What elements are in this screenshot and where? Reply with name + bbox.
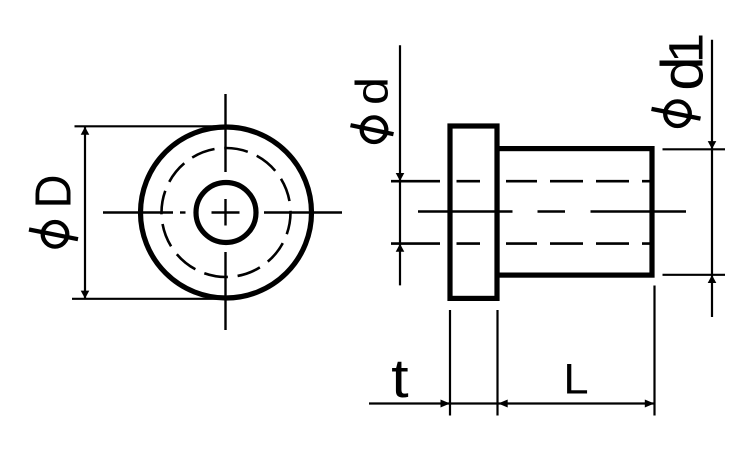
label phiD: phi symbol	[29, 222, 78, 247]
bottom dimensions: extension line at body right	[653, 286, 655, 416]
dimension t: arrow right	[441, 400, 451, 408]
dimension phid1: extension line bottom	[663, 274, 726, 276]
svg-text:D: D	[25, 175, 82, 209]
dimension phid1: arrow down to top ext line	[708, 141, 717, 149]
bottom dimensions: extension line at flange right	[496, 310, 498, 416]
dimension phiD: dimension line	[84, 127, 86, 299]
dimension L: dimension line	[498, 402, 655, 404]
side view: hidden hole dashed line top	[391, 180, 653, 183]
dimension phid1: arrow up to bottom ext line	[708, 275, 717, 283]
svg-text:L: L	[563, 357, 588, 404]
svg-text:t: t	[391, 348, 409, 409]
label phid1: phi symbol	[652, 101, 701, 126]
dimension phid1: dimension line	[711, 40, 713, 317]
svg-text:d: d	[347, 77, 398, 105]
side view: flange rectangle	[450, 126, 497, 298]
front view: dashed bolt circle	[162, 148, 291, 277]
dimension phid: dimension line	[399, 45, 401, 285]
dimension t: dimension line	[369, 402, 498, 404]
dimension phiD: arrow down	[81, 291, 90, 299]
dimension phid: arrow up to bottom dashed line	[396, 244, 405, 252]
dimension phid1: extension line top	[663, 148, 726, 150]
side view: hidden hole dashed line bottom	[391, 242, 653, 245]
dimension phid: arrow down to top dashed line	[396, 173, 405, 181]
svg-text:1: 1	[660, 33, 714, 64]
dimension phiD: extension line bottom	[72, 298, 226, 300]
dimension phiD: extension line top	[75, 125, 227, 127]
side view: body rectangle	[497, 149, 652, 276]
dimension L: arrow right	[645, 400, 655, 408]
front view: inner hole circle	[196, 183, 256, 243]
label phid: phi symbol	[351, 117, 394, 142]
front view: horizontal centerline	[103, 211, 342, 213]
dimension L: arrow left	[498, 400, 508, 408]
side view: centerline	[418, 210, 686, 212]
front view: vertical centerline	[224, 94, 226, 330]
dimension phiD: arrow up	[81, 127, 90, 135]
front view: outer circle	[141, 127, 312, 298]
bottom dimensions: extension line at flange left	[449, 310, 451, 416]
